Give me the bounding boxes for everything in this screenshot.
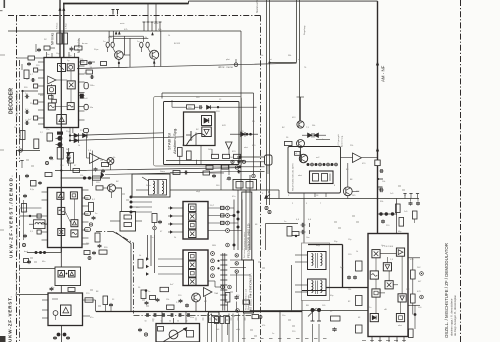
resistor R18 [96,186,103,190]
transistor Q5 [108,184,116,192]
pad stabi bottom a [231,160,234,163]
svg-text:150n: 150n [90,85,96,87]
wire top NF bus continuation [188,1,190,4]
svg-text:Mono/Stereo Umschaltg.: Mono/Stereo Umschaltg. [16,90,19,116]
resistor R55 [22,204,27,213]
capacitor C49 am [380,169,382,173]
wire Q1 connections [107,47,109,52]
pad on y168 [235,166,238,169]
wire y178 feed [61,177,111,179]
resistor R13 [57,148,63,160]
wire r63 drops [216,324,218,342]
border dash-dot left inner segment 1 [19,60,21,162]
trimmer internals [236,182,243,189]
U1 pin boxes left [34,68,38,72]
capacitor C3 oval [111,42,114,47]
wire stabi drops lower [220,165,222,191]
arrow F [265,194,271,198]
osc cell mixer1 [372,250,380,258]
resistor R5 stabi top [187,105,195,109]
svg-text:50: 50 [177,321,179,323]
capacitor C31 [90,75,92,79]
resistor R8 row a [212,154,219,158]
stub ends caps [309,223,311,227]
box small under decoder [47,133,53,141]
arrow AM-NF b [376,148,379,152]
resistor R7 stabi mid [187,151,192,160]
pad right a [420,272,424,276]
resistor R35 [411,270,416,279]
wire stubs on F line [404,194,406,199]
svg-text:50µs: 50µs [94,49,98,51]
svg-text:18k: 18k [348,289,351,291]
wire thick can join [302,290,326,292]
resistor R36 [411,294,416,303]
amp2 block in U2 [71,220,78,227]
wire column drop [154,223,156,227]
dots stabi out [246,133,249,136]
node dots ukw feed [130,196,133,199]
IC U1 decoder box [44,58,79,128]
osc cell block [372,289,380,297]
capacitor C35 [37,48,41,50]
svg-text:10n: 10n [150,237,153,239]
capacitor C44 [23,194,27,196]
wire bundle d [237,171,265,173]
wire right col [412,258,414,270]
svg-text:1n: 1n [148,291,150,293]
transistor Q7 [299,154,307,162]
resistor R15 [102,163,109,167]
wire Q6 drops [195,302,197,312]
transformer T3 can [308,279,327,296]
stub marks left [21,161,23,169]
resistor R42 on bus [101,62,107,66]
svg-text:Osz.: Osz. [381,245,386,247]
svg-text:UKW-ZF-VERST./DEMOD.: UKW-ZF-VERST./DEMOD. [9,174,14,258]
node junction dots [69,134,71,136]
svg-text:BC: BC [116,181,119,183]
svg-text:FELDST.ANZ. DECOD. ABST.: FELDST.ANZ. DECOD. ABST. [292,163,295,191]
resistor R30 [399,218,404,227]
resistor R32 [356,296,363,306]
border dash-dot lower partition [96,231,113,233]
module box STABI outer [154,97,242,167]
U2 internal wires [60,199,62,207]
resistor R19 [89,203,94,212]
U1 pin pill a [84,82,88,89]
wire varicap drops [312,324,314,342]
can left stubs [295,254,308,256]
aux box internals [124,215,132,219]
U1 internal wiring [51,84,53,86]
triangle block in U1 [57,115,67,125]
svg-text:10k: 10k [382,181,385,183]
oscillator block in U1 [48,86,56,94]
coil L1 box [34,220,46,229]
svg-text:1n: 1n [272,333,274,335]
capacitor C47 tuner left [138,328,142,330]
node dot right [414,313,417,316]
module box feldstaerke [288,147,341,194]
resistor R44 [24,70,29,79]
svg-text:47k: 47k [262,325,265,327]
resistor R37 [409,329,414,338]
diode wire lower [70,137,184,141]
pad tuner left [144,333,147,336]
svg-text:L-Kan: L-Kan [66,22,68,29]
diode D8 [74,138,79,142]
border dash-dot mid vertical [260,16,262,342]
arrowheads AA mute1 [115,32,117,35]
pad right b [420,295,424,299]
FL1 cell 3 [189,221,197,229]
svg-text:50m: 50m [190,317,194,319]
wire x280 drop [279,311,281,342]
wire Q8 leads [347,163,349,187]
amp1 block in U2 [57,192,64,199]
FL1 cell 4 [189,230,197,238]
wire stubs left U2 [20,215,42,217]
varicap dots [311,308,315,312]
capacitor C45 [23,234,27,236]
pad bottom mid b [228,285,232,289]
field inner cells [313,174,319,182]
border dash-dot right [460,0,462,342]
transformer T1 box [149,180,167,196]
box stabi core [184,112,216,146]
svg-text:47n: 47n [90,317,93,319]
triangle ref stabi [226,142,233,149]
resistor R22 [68,288,75,292]
svg-text:2,6 V geregelt: 2,6 V geregelt [337,134,340,147]
wire keramik feeds [147,235,149,259]
wire x265.5 drop [265,224,267,251]
wire stubs from top bus [147,4,149,23]
svg-text:FELDSENSOR (ABS 12): FELDSENSOR (ABS 12) [247,224,251,258]
resistor R63 below bus [215,317,219,324]
capacitor C28 [353,276,357,278]
svg-text:abstimm spga. i f l. demodu: abstimm spga. i f l. demodulierte [450,298,454,336]
svg-text:1k: 1k [238,173,240,175]
svg-text:pilot: pilot [226,58,230,61]
wire bundle b [237,161,265,163]
svg-text:56k: 56k [312,125,315,127]
capacitor C17 [50,287,54,289]
wire left col ukw [23,200,25,240]
box trimmer pair [233,180,257,191]
resistor R62 right [413,211,418,219]
filter FL2 box [183,250,208,286]
svg-text:68k: 68k [40,95,43,97]
tiny rects in U1 [49,96,54,100]
block q in pair box a [58,271,65,278]
diode D3 in square [202,116,212,126]
wire thick osc path top [308,244,343,246]
osc top stub [396,199,398,234]
resistor R46 [44,46,50,50]
pad mid fm [88,257,91,260]
wire field to amp [341,157,353,159]
resistor R14 [68,153,74,164]
wire x304 down [303,199,305,243]
svg-text:OSZILL. / MISCHSTUFE / ZF / DE: OSZILL. / MISCHSTUFE / ZF / DEMODULATOR [444,243,449,338]
U1 pins right [79,61,85,63]
box field inner [310,171,334,184]
wire horizontal y31 [8,30,241,32]
capacitor C20 [179,299,183,301]
capacitor C46 bottom mid [156,298,160,300]
transistor Q6 [192,293,201,302]
capacitor C26 [381,220,385,222]
capacitor C21 [185,304,189,306]
cans enclosure [302,243,330,301]
pad ends center feeds [265,206,268,209]
U3 pins left [42,299,48,301]
wire F line [265,198,420,200]
opamp triangle A1 [204,288,213,297]
bus pin boxes [146,313,149,317]
transistor Q1 mute left [115,51,124,60]
resistor R53 on y168 [206,165,213,169]
wire U2 spine [60,171,62,253]
pad column [153,226,157,230]
resistor R1 NF links [57,33,62,44]
wire y223.5 [266,223,299,225]
pilot block in U1 [48,103,55,110]
wire meter connections [86,136,88,159]
pill in tuner box [158,327,164,332]
block q in pair box b [69,271,76,278]
svg-text:BC413: BC413 [174,43,181,45]
arrow pin marks [101,172,104,178]
capacitor C38 [227,177,231,179]
wire Q2 connections [140,47,142,52]
svg-text:depl: depl [24,251,28,253]
FL2 left stubs [158,258,183,260]
top corner parts [292,232,299,236]
wire connector down [267,165,269,174]
wire x61 down [60,253,62,268]
wire stereo line left [59,0,61,58]
wire left lower [17,150,41,152]
node dot b [88,176,91,179]
svg-text:AM - NF: AM - NF [381,65,386,82]
filter block in U1 [67,64,74,71]
capacitor C16 [92,251,96,253]
wire mute bus a [109,35,143,37]
U2 pins right [82,189,89,191]
pad bottom mid a [221,285,225,289]
resistor R50 [141,290,146,299]
wire left col x291.6 [291,265,293,311]
scan blemish bottom-left corner [0,336,6,342]
svg-text:19k: 19k [260,55,263,57]
svg-text:Regelspg.: Regelspg. [304,25,306,35]
transistor Q3 [297,140,305,148]
resistor R41 [86,70,93,74]
wire vertical x296.5 [296,0,298,63]
arrow on NF line left [59,7,61,10]
box transformer enclosure [132,174,170,197]
osc cell amp1 [396,248,404,256]
box tuner bottom [156,324,200,342]
svg-text:11/ Bereich LV Abstimmung: 11/ Bereich LV Abstimmung [16,225,19,252]
resistor R26 [167,305,175,309]
resistor R24 [138,259,143,268]
resistor R23 [85,298,93,302]
transistor Q2 mute right [150,50,159,59]
box U3 FM frontend [48,293,83,326]
triangle amp meter [90,153,100,164]
transistor Q8 [343,187,352,196]
pad U2 right [89,223,92,226]
wires FL1 pads to bundle [229,215,234,217]
module box STABI inner [164,102,240,165]
osc cell det2 [398,294,406,302]
wire aux leads [110,220,120,222]
svg-text:47n: 47n [226,179,229,181]
wire coil leads [29,223,34,225]
capacitor C24 [301,230,303,234]
wire stereo line right [63,4,65,58]
pad mid [236,309,240,313]
resistor R20 [95,233,100,242]
svg-text:Stumm-schltg.: Stumm-schltg. [256,0,259,13]
capacitor C10b mark [57,132,63,135]
resistor R47 column [152,214,157,223]
wire U3 down [61,326,63,342]
capacitor C14 [92,216,96,218]
capacitor C9 [25,121,27,125]
svg-text:38k: 38k [288,55,291,57]
capacitor C48 [27,260,31,262]
wire bus y310.5 [250,310,368,312]
resistor R52 [103,296,108,305]
wire drops bottom mid [227,302,229,312]
arrow on NF line right [63,7,65,10]
wire Q9 feed [300,97,302,121]
resistor R51 [225,293,230,303]
border dash-dot top [8,15,261,17]
wire stabi inner top [172,106,187,108]
wire y139 seg [316,139,330,141]
diode wire upper [70,133,164,136]
wire y173 segs [170,172,203,174]
U2 pin pill a [85,196,91,200]
resistor R27 [45,173,52,177]
border dash-dot left [16,16,18,342]
resistor R60 field [295,152,301,156]
resistor R17 [93,176,101,180]
arrow AM-NF a [376,62,379,66]
capacitor C42 [235,296,239,298]
capacitor C8 [25,110,27,114]
wire jog y62.5 [270,62,297,64]
node bottom mid [145,289,148,292]
wire below U1 [55,170,87,172]
wire STABI top [162,92,254,94]
node dots y214 [378,213,398,215]
wires FL2 pads to bundle [230,259,242,261]
IC U2 UKW-ZF box [48,188,83,248]
resistor R59 [24,259,29,263]
tee mark am [378,178,383,180]
svg-text:abgl: abgl [196,191,200,193]
wire to U1 pin [23,90,39,92]
tick row under bus [195,318,197,321]
svg-text:STABI für: STABI für [167,132,172,150]
triangle amp right [353,153,362,163]
pad row field [307,163,310,166]
pill decoder lower right [84,129,89,133]
resistor R61 in AM line [375,160,380,166]
svg-text:FM-Vorstufe m. Regel. Bd: FM-Vorstufe m. Regel. Bd [15,270,18,296]
transformer T2 can [308,252,327,270]
wire thick osc path vert [342,245,344,288]
margin mark d [0,10,3,11]
resistor R3 [75,46,83,50]
tuner circle [169,330,178,339]
mixer block in U1 [67,81,75,89]
margin mark c [0,229,4,231]
resistor R31 [356,261,363,271]
vertical wire x250 [249,175,251,250]
capacitor C5 oval [146,42,149,47]
wire top NF bus thick [63,3,189,5]
diode D6 [74,133,79,137]
wire fm left feed [17,294,49,296]
tuner stubs [161,312,163,324]
wire transformer leads [142,177,149,181]
box small left [31,181,37,187]
capacitor C40 [212,174,216,176]
resistor R49 [203,171,210,175]
arrowhead mute2 [152,32,154,35]
svg-text:50: 50 [145,321,147,323]
resistor R4 [285,141,293,145]
wire Q5 links [103,187,108,189]
resistor R34 [331,316,341,321]
pad left [19,149,22,152]
osc cell diode [370,314,378,322]
meter M1 [107,158,114,165]
margin mark a [0,54,5,56]
box small mid [209,312,220,323]
U1 pin pill b [84,104,88,110]
capacitor C30 [88,61,92,63]
capacitor C29 [332,328,336,330]
osc right stub a [408,257,420,259]
wire Q3 collector down [300,148,302,163]
FL1 cell 2 [189,213,197,221]
diode D9 vertical pair [67,153,71,157]
capacitor C2 oval [106,42,109,47]
texture bottom labels a [242,338,246,340]
capacitor C43 [109,303,113,305]
mixer block in U2 [58,229,65,236]
pad under decoder [45,161,48,164]
osc internal wires [380,253,396,255]
wire y252.5 rail [27,252,61,254]
svg-text:abst: abst [244,146,248,149]
FL1 right stubs [208,207,226,209]
resistor R28 [287,227,292,237]
diode D7 [83,133,88,137]
filter FL1 box [183,202,208,240]
transistor Q4 stabi [187,133,206,145]
capacitor C13 [101,169,105,171]
